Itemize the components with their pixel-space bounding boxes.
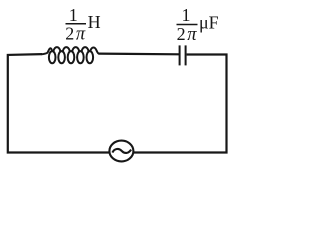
AC source sine tilde xyxy=(112,149,131,153)
svg-text:π: π xyxy=(187,25,197,45)
wire left side (top-left corner, left vertical, bottom-left segment) xyxy=(8,54,109,152)
capacitor C plates (value 1/2pi uF) xyxy=(180,45,186,65)
wire between inductor and capacitor xyxy=(98,52,179,55)
svg-text:2: 2 xyxy=(177,24,186,44)
label: inductor fraction bar xyxy=(66,23,87,25)
svg-text:2: 2 xyxy=(65,24,74,44)
svg-text:H: H xyxy=(88,12,101,32)
AC source circle xyxy=(109,141,133,162)
label: capacitor fraction bar xyxy=(177,24,198,26)
svg-text:π: π xyxy=(76,25,86,45)
svg-text:1: 1 xyxy=(182,5,191,25)
svg-text:1: 1 xyxy=(69,5,78,25)
wire right side (bottom-right segment, right vertical, top-right corner) xyxy=(134,55,227,153)
inductor L coil (value 1/2pi H) xyxy=(42,47,99,63)
svg-text:μF: μF xyxy=(199,13,219,33)
